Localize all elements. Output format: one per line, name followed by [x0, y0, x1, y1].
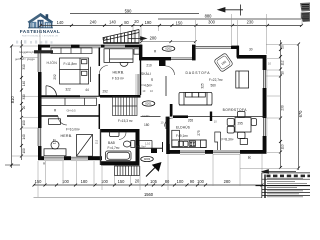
svg-text:310: 310: [22, 94, 26, 100]
dimension line 590 (top row): [70, 13, 199, 15]
svg-text:140: 140: [109, 19, 117, 24]
svg-text:295: 295: [238, 122, 244, 126]
svg-text:F=15,3 m²: F=15,3 m²: [118, 119, 133, 123]
svg-text:80: 80: [124, 20, 129, 25]
DAGSTOFA sofa: [179, 92, 212, 105]
svg-text:BAÐ: BAÐ: [108, 141, 116, 145]
svg-text:BORÐSTOFA: BORÐSTOFA: [223, 108, 248, 112]
svg-text:90: 90: [102, 36, 107, 41]
svg-text:670: 670: [298, 110, 303, 118]
svg-text:322: 322: [65, 87, 71, 91]
recessed entry wall: [140, 57, 171, 60]
left-pointing arrow marker top: [218, 5, 243, 16]
exterior stair bottom: [115, 166, 140, 176]
top segment tick marks: [39, 24, 303, 27]
top-right stamp blob: [300, 3, 310, 23]
right wall with windows: [263, 55, 267, 153]
svg-text:100: 100: [22, 148, 26, 154]
svg-text:275: 275: [197, 130, 201, 136]
herb shaft strip: [136, 74, 140, 95]
top wall left section with windows: [38, 45, 142, 48]
kitchen/dining divider: [210, 112, 212, 122]
svg-text:F=4,6m²: F=4,6m²: [140, 84, 152, 88]
svg-text:F=10,0m²: F=10,0m²: [66, 127, 80, 131]
title block table bottom-right: [256, 173, 311, 198]
left wall with windows: [38, 45, 42, 157]
svg-text:20: 20: [134, 19, 139, 24]
svg-text:20: 20: [22, 106, 26, 110]
left extension horizontals: [12, 46, 38, 156]
top window band right: [196, 46, 231, 49]
svg-text:ELDHÚS: ELDHÚS: [176, 125, 190, 130]
svg-text:560: 560: [211, 84, 217, 88]
bottom extension lines: [38, 154, 262, 197]
svg-text:100: 100: [177, 179, 185, 184]
right dimension chains: [280, 40, 282, 168]
svg-text:30: 30: [248, 156, 252, 160]
svg-text:190: 190: [145, 20, 153, 25]
top segment dimension line: [40, 24, 302, 26]
door arc HERB top room: [99, 66, 108, 75]
HERB top bed: [104, 49, 139, 67]
svg-text:180: 180: [81, 179, 89, 184]
svg-text:150: 150: [176, 21, 184, 26]
svg-text:HERB.: HERB.: [113, 70, 125, 74]
svg-text:F=8,3m²: F=8,3m²: [222, 138, 234, 142]
bottom wall right section: [168, 150, 267, 154]
bath fixtures: sink, toilet, tub: [106, 131, 135, 161]
svg-text:100: 100: [22, 120, 26, 126]
svg-text:20: 20: [281, 45, 285, 49]
svg-text:150: 150: [118, 179, 126, 184]
svg-text:90: 90: [190, 179, 195, 184]
svg-text:20: 20: [135, 178, 140, 183]
skali left wall: [140, 60, 142, 95]
kitchen counter: [172, 130, 206, 147]
svg-text:0203: 0203: [144, 157, 151, 161]
HJON double bed: [60, 58, 91, 84]
svg-text:0202: 0202: [165, 47, 172, 51]
top segment numbers: [57, 19, 255, 26]
svg-text:180: 180: [144, 123, 150, 127]
svg-text:HJÓN: HJÓN: [47, 60, 58, 65]
recess dim line: [141, 41, 195, 43]
svg-text:105: 105: [150, 179, 158, 184]
dining table and chairs: [227, 111, 256, 144]
svg-text:200: 200: [150, 36, 158, 41]
wall stub left of sofa: [170, 104, 173, 117]
tilted table 180: [214, 53, 233, 72]
svg-text:175: 175: [53, 139, 57, 145]
window sill lines: [38, 44, 267, 161]
wall between HJON and HERB (vertical x=100): [98, 48, 100, 129]
svg-text:240: 240: [90, 19, 98, 24]
wall y=96 horizontal (bedroom row / corridor): [42, 95, 141, 98]
step-down wall to corner: [237, 46, 240, 58]
bath block walls: [100, 129, 140, 165]
svg-text:310: 310: [22, 64, 26, 70]
200 arrow annotation: [128, 37, 147, 41]
cabinet right wall: [236, 71, 249, 88]
svg-text:140: 140: [22, 134, 26, 140]
left dimension chains: [21, 40, 23, 160]
svg-text:112: 112: [281, 60, 285, 65]
svg-text:GH+0,5: GH+0,5: [67, 109, 77, 113]
wall corner connector at recess: [139, 45, 142, 61]
pantry closet corner: [215, 132, 221, 150]
svg-text:10: 10: [281, 71, 285, 75]
door tag oval 0203: [141, 156, 154, 161]
svg-text:F 6,9 m²: F 6,9 m²: [112, 77, 124, 81]
svg-text:F=11,8m²: F=11,8m²: [64, 62, 78, 66]
bottom HERB furniture: closet, chair, desk, bed: [44, 119, 93, 156]
svg-text:F=4,7m²: F=4,7m²: [108, 146, 120, 150]
280 leader arrow to title block: [262, 170, 296, 174]
svg-text:GANG.: GANG.: [142, 114, 151, 118]
svg-text:230: 230: [281, 105, 285, 111]
svg-text:300: 300: [208, 20, 216, 25]
svg-text:590: 590: [125, 9, 133, 14]
wall y=116.5 dagstofa/south rooms: [141, 115, 267, 126]
svg-text:F=9,1m²: F=9,1m²: [176, 134, 188, 138]
svg-text:1,10: 1,10: [145, 141, 151, 145]
HJON door arc: [46, 86, 57, 96]
svg-text:44: 44: [85, 88, 89, 92]
svg-text:30: 30: [249, 47, 253, 51]
laundry closet row: [41, 98, 97, 105]
svg-text:210: 210: [146, 63, 152, 67]
HJON wardrobe band: [51, 48, 92, 54]
door arc skali-dagstofa: [166, 66, 175, 75]
door arc bottom herb: [58, 116, 67, 125]
svg-text:110: 110: [281, 144, 285, 149]
skali/dagstofa wall stub: [159, 60, 166, 67]
svg-text:880: 880: [205, 14, 213, 19]
svg-text:140: 140: [22, 81, 26, 87]
svg-text:100: 100: [197, 179, 205, 184]
bottom dimension row 1: [34, 184, 263, 186]
bottom total 1560: [34, 196, 263, 198]
svg-text:DAGSTOFA: DAGSTOFA: [186, 71, 211, 75]
exterior stair top (entrance ramp): [104, 30, 140, 44]
svg-text:230: 230: [247, 20, 255, 25]
svg-text:292: 292: [53, 74, 57, 80]
north arrow: [146, 162, 162, 177]
dimension line 880 (top row right): [158, 18, 301, 20]
svg-text:325: 325: [201, 83, 205, 89]
kitchen left wall: [166, 117, 169, 144]
bottom wall left section: [38, 156, 102, 160]
svg-text:0201: 0201: [145, 102, 152, 106]
faint skyline marks under logo: [16, 40, 53, 43]
wall connector vertical: [192, 45, 196, 61]
svg-text:265: 265: [188, 119, 194, 123]
gangur/stair area east wall: [165, 117, 167, 129]
svg-text:150: 150: [35, 179, 43, 184]
extension lines top: [40, 14, 302, 56]
small wc closet wall: [140, 140, 153, 142]
svg-text:F=22,7m²: F=22,7m²: [209, 78, 223, 82]
kitchen-side wall stub: [166, 144, 170, 154]
svg-text:HERB.: HERB.: [61, 134, 73, 138]
svg-text:292: 292: [103, 90, 109, 94]
svg-text:140: 140: [57, 20, 65, 25]
gangur south wall and door: [136, 147, 163, 149]
svg-text:80: 80: [165, 179, 170, 184]
svg-text:212: 212: [95, 139, 99, 144]
svg-text:810: 810: [10, 96, 15, 104]
svg-text:1560: 1560: [144, 192, 154, 197]
laundry dividing wall y=117: [42, 115, 101, 117]
svg-text:30: 30: [150, 78, 154, 82]
svg-text:280: 280: [224, 179, 232, 184]
logo house icon: [28, 13, 54, 28]
door tag oval 0201: [142, 101, 155, 106]
right extension horizontals: [240, 45, 299, 169]
door tag oval 0202: [162, 46, 175, 51]
door arc gangur-bath: [119, 132, 126, 139]
svg-text:SKÁLI: SKÁLI: [141, 72, 151, 76]
